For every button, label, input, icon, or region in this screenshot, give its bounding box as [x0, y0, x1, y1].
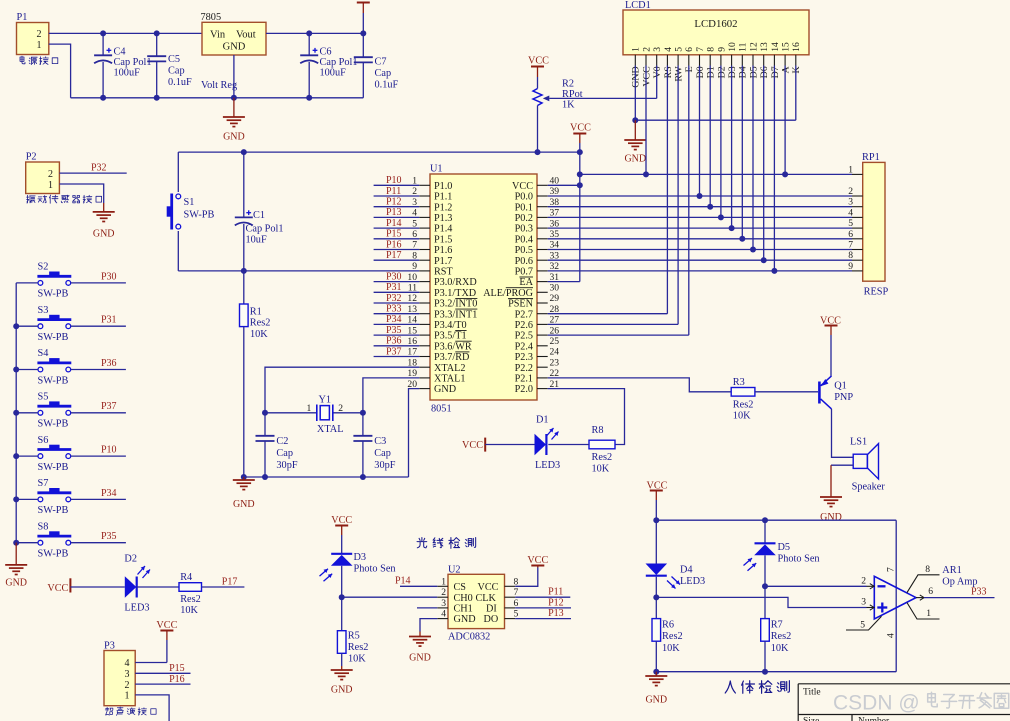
svg-text:Res2: Res2 — [250, 318, 271, 329]
wire S7 net P34 — [71, 498, 126, 500]
junction bus S5 — [13, 410, 19, 416]
wire U1 pin40 VCC — [548, 184, 580, 186]
svg-text:LED3: LED3 — [124, 602, 149, 613]
pin 7 LCD1 D0 — [699, 55, 701, 66]
svg-text:S5: S5 — [38, 392, 49, 403]
wire VCC to RP1 pin1 — [580, 173, 852, 175]
wire net P11 — [374, 195, 420, 197]
wire 7805 GND stem — [233, 55, 235, 98]
svg-text:DO: DO — [484, 614, 499, 625]
wire S2 net P30 — [71, 282, 126, 284]
wire LCD D0 down to P0.0 line — [699, 66, 701, 197]
pin 16 LCD1 K — [795, 55, 797, 66]
svg-text:D2: D2 — [124, 553, 137, 564]
svg-text:GND: GND — [5, 577, 27, 588]
junction bus S3 — [13, 323, 19, 329]
wire P1 pin1 down to ground rail — [49, 44, 71, 98]
svg-text:3: 3 — [861, 596, 866, 607]
wire LCD D7 down to P0.7 line — [773, 66, 775, 271]
adc U2 ADC0832 body — [448, 574, 505, 628]
svg-text:100uF: 100uF — [320, 67, 347, 78]
svg-text:PNP: PNP — [834, 392, 853, 403]
svg-text:D2: D2 — [716, 66, 727, 78]
svg-text:Res2: Res2 — [733, 399, 754, 410]
ground GND (speaker) — [820, 496, 842, 498]
svg-text:VCC: VCC — [331, 515, 352, 526]
svg-text:SW-PB: SW-PB — [38, 375, 69, 386]
pin 5 AR1 — [846, 616, 882, 630]
svg-text:24: 24 — [550, 347, 560, 358]
resistor R8 10K — [589, 440, 615, 449]
wire U2 CH1 stub — [417, 607, 437, 609]
mcu U1 8051 body — [430, 174, 537, 400]
svg-text:4: 4 — [125, 658, 130, 669]
junction D1 — [707, 204, 713, 210]
wire R2 wiper to LCD V0 — [549, 97, 656, 99]
svg-text:11: 11 — [738, 42, 749, 51]
svg-text:9: 9 — [412, 261, 417, 272]
photo arrows D5 — [744, 558, 753, 565]
junction D5 top — [762, 517, 768, 523]
svg-text:P0.6: P0.6 — [515, 256, 533, 267]
svg-text:P3.7/RD: P3.7/RD — [434, 352, 469, 363]
svg-text:ALE/PROG: ALE/PROG — [483, 288, 533, 299]
svg-text:23: 23 — [550, 357, 560, 368]
svg-text:P16: P16 — [386, 239, 402, 250]
wire P3 pin1 down — [135, 695, 169, 721]
svg-text:P11: P11 — [548, 586, 563, 597]
wire bus to S2 — [16, 282, 38, 284]
resistor R4 10K — [179, 583, 202, 592]
pin 13 LCD1 D6 — [763, 55, 765, 66]
wire U1 P2.5 to LCD E — [548, 334, 689, 336]
pin 25 U1 P2.4 — [537, 345, 548, 347]
pin 10 U1 P3.0/RXD — [419, 281, 430, 283]
wire P0.3 to RP1 — [548, 227, 852, 229]
svg-text:2: 2 — [338, 403, 343, 414]
svg-text:Cap: Cap — [374, 448, 391, 459]
pin 6 U1 P1.5 — [419, 238, 430, 240]
pin 39 U1 P0.0 — [537, 195, 548, 197]
wire LCD D4 down to P0.4 line — [741, 66, 743, 239]
svg-text:GND: GND — [434, 384, 456, 395]
svg-text:P13: P13 — [548, 608, 564, 619]
svg-text:P2: P2 — [26, 152, 37, 163]
svg-text:P17: P17 — [386, 250, 402, 261]
capacitor C6 100uF — [308, 33, 310, 55]
svg-text:Vout: Vout — [236, 30, 256, 41]
svg-text:Y1: Y1 — [319, 395, 332, 406]
svg-text:VCC: VCC — [641, 66, 652, 87]
svg-text:10K: 10K — [592, 464, 610, 475]
svg-text:P0.4: P0.4 — [515, 234, 533, 245]
svg-text:P36: P36 — [386, 336, 402, 347]
svg-text:30: 30 — [550, 283, 560, 294]
svg-text:P0.0: P0.0 — [515, 192, 533, 203]
svg-text:12: 12 — [748, 42, 759, 52]
svg-text:P2.2: P2.2 — [515, 363, 533, 374]
pin 7 RP1 — [852, 249, 863, 251]
pin 4 LCD1 RS — [666, 55, 668, 66]
wire D4 stem — [655, 520, 657, 563]
wire S8 net P35 — [71, 542, 126, 544]
pin 1 U1 P1.0 — [419, 184, 430, 186]
svg-text:4: 4 — [663, 47, 674, 52]
svg-text:P37: P37 — [101, 401, 117, 412]
svg-text:D5: D5 — [778, 542, 791, 553]
wire P3 pin3 net P15 — [135, 672, 190, 674]
svg-text:0.1uF: 0.1uF — [168, 77, 192, 88]
svg-text:10: 10 — [727, 42, 738, 52]
pin 5 U2 DO — [505, 618, 516, 620]
junction VCC/pin40 — [577, 182, 583, 188]
svg-text:XTAL1: XTAL1 — [434, 374, 465, 385]
svg-text:Res2: Res2 — [771, 631, 792, 642]
svg-text:CS: CS — [454, 582, 467, 593]
wire U1 P2.6 to LCD RW — [548, 323, 678, 325]
pin 16 U1 P3.6/WR — [419, 345, 430, 347]
pin 29 U1 PSEN — [537, 302, 548, 304]
svg-text:P13: P13 — [386, 207, 402, 218]
wire net P35 — [374, 334, 420, 336]
svg-text:P1.3: P1.3 — [434, 213, 452, 224]
svg-text:P1.4: P1.4 — [434, 224, 452, 235]
svg-text:XTAL: XTAL — [317, 424, 344, 435]
wire VCC rail above U1 — [178, 151, 580, 153]
wire net P15 — [374, 238, 420, 240]
svg-text:SW-PB: SW-PB — [38, 419, 69, 430]
capacitor C5 0.1uF — [156, 33, 158, 56]
wire S4 net P36 — [71, 369, 126, 371]
svg-text:10uF: 10uF — [246, 235, 267, 246]
svg-text:ADC0832: ADC0832 — [448, 631, 490, 642]
ground GND (U2) — [409, 636, 431, 638]
svg-text:8: 8 — [706, 47, 717, 52]
pin 8 RP1 — [852, 259, 863, 261]
junction C2 bottom — [262, 474, 268, 480]
svg-text:GND: GND — [409, 653, 431, 664]
junction C1 top — [241, 149, 247, 155]
svg-text:P15: P15 — [169, 663, 185, 674]
svg-text:Title: Title — [803, 687, 821, 697]
svg-text:2: 2 — [441, 587, 446, 598]
svg-text:P34: P34 — [101, 488, 117, 499]
svg-text:VCC: VCC — [47, 583, 68, 594]
svg-text:GND: GND — [233, 499, 255, 510]
junction bus S8 — [13, 540, 19, 546]
svg-text:Res2: Res2 — [662, 631, 683, 642]
junction C5 bottom — [154, 95, 160, 101]
svg-text:10K: 10K — [662, 643, 680, 654]
svg-text:R8: R8 — [592, 425, 604, 436]
svg-text:Cap: Cap — [375, 68, 392, 79]
svg-text:VCC: VCC — [528, 56, 549, 67]
svg-text:Cap Pol1: Cap Pol1 — [246, 224, 284, 235]
wire net P17 — [374, 259, 420, 261]
svg-text:DI: DI — [486, 604, 497, 615]
wire VCC to Q1 emitter — [830, 335, 832, 376]
wire D2 to R4 — [137, 586, 179, 588]
resistor pack RP1 RESP body — [863, 162, 885, 281]
photodiode D5 Photo Sen — [755, 542, 776, 544]
svg-text:SW-PB: SW-PB — [38, 549, 69, 560]
svg-text:S1: S1 — [184, 197, 195, 208]
svg-text:GND: GND — [223, 132, 245, 143]
pin 14 LCD1 D7 — [773, 55, 775, 66]
junction D6 — [761, 257, 767, 263]
svg-text:V0: V0 — [652, 66, 663, 78]
wire net P12 — [374, 206, 420, 208]
wire AR1 output net P33 — [924, 597, 995, 599]
label 人体检测 — [725, 681, 735, 693]
pin 15 LCD1 A — [784, 55, 786, 66]
svg-text:P33: P33 — [386, 304, 402, 315]
svg-text:S7: S7 — [38, 478, 49, 489]
svg-text:4: 4 — [441, 609, 446, 620]
svg-text:P3.0/RXD: P3.0/RXD — [434, 277, 477, 288]
wire ground rail — [71, 97, 364, 99]
svg-text:P34: P34 — [386, 314, 402, 325]
wire LCD GND/K tie — [635, 119, 796, 121]
svg-text:S2: S2 — [38, 262, 49, 273]
svg-text:RP1: RP1 — [862, 152, 880, 163]
svg-text:7: 7 — [695, 47, 706, 52]
wire speaker to ground — [831, 464, 853, 466]
svg-text:SW-PB: SW-PB — [38, 332, 69, 343]
wire XTAL1 from Y1 right — [363, 378, 419, 413]
svg-text:P37: P37 — [386, 346, 402, 357]
svg-text:1: 1 — [631, 47, 642, 52]
svg-text:P2.0: P2.0 — [515, 384, 533, 395]
pin 32 U1 P0.7 — [537, 270, 548, 272]
label 超声波接口 — [105, 707, 113, 715]
pin 2 U1 P1.1 — [419, 195, 430, 197]
wire GND up to U1 pin20 — [409, 389, 420, 477]
svg-text:P36: P36 — [101, 358, 117, 369]
pin 28 U1 P2.7 — [537, 313, 548, 315]
svg-text:E: E — [684, 66, 695, 72]
svg-text:C5: C5 — [168, 54, 180, 65]
label 光线检测 — [417, 538, 427, 548]
svg-text:SW-PB: SW-PB — [38, 505, 69, 516]
svg-text:GND: GND — [645, 695, 667, 706]
wire VCC vertical to U1 pin40 and EA — [579, 152, 581, 282]
svg-text:2: 2 — [125, 680, 130, 691]
svg-text:XTAL2: XTAL2 — [434, 363, 465, 374]
svg-text:P1.7: P1.7 — [434, 256, 452, 267]
pin 5 RP1 — [852, 227, 863, 229]
svg-text:CSDN @: CSDN @ — [833, 692, 920, 715]
pin 6 LCD1 E — [688, 55, 690, 66]
svg-text:P31: P31 — [101, 315, 117, 326]
pin 12 U1 P3.2/INT0 — [419, 302, 430, 304]
wire D3 to junction — [341, 566, 343, 597]
wire P0.0 to RP1 — [548, 195, 852, 197]
wire LCD pin16 K down — [795, 66, 797, 121]
led D2 light arrows — [138, 566, 146, 575]
svg-text:14: 14 — [770, 42, 781, 52]
svg-text:EA: EA — [519, 277, 533, 288]
svg-text:GND: GND — [331, 685, 353, 696]
pin 27 U1 P2.6 — [537, 323, 548, 325]
svg-text:16: 16 — [791, 42, 802, 52]
svg-text:1K: 1K — [562, 100, 575, 111]
svg-text:PSEN: PSEN — [508, 299, 534, 310]
resistor R5 10K — [341, 597, 343, 631]
svg-text:2: 2 — [641, 47, 652, 52]
junction D5/R7/pin2 — [762, 583, 768, 589]
svg-text:5: 5 — [860, 619, 865, 630]
wire P0.5 to RP1 — [548, 249, 852, 251]
svg-text:CH1: CH1 — [454, 604, 473, 615]
svg-text:P10: P10 — [101, 445, 117, 456]
capacitor C3 30pF — [362, 413, 364, 436]
svg-text:SW-PB: SW-PB — [184, 210, 215, 221]
wire net P34 — [374, 323, 420, 325]
svg-text:3: 3 — [125, 669, 130, 680]
svg-text:Photo Sen: Photo Sen — [354, 563, 396, 574]
label 电源接口 — [20, 56, 25, 64]
svg-text:R2: R2 — [562, 79, 574, 90]
op-amp AR1 body — [874, 576, 916, 619]
svg-text:P0.7: P0.7 — [515, 267, 533, 278]
svg-text:D4: D4 — [738, 66, 749, 78]
svg-text:10K: 10K — [771, 643, 789, 654]
svg-text:D3: D3 — [727, 66, 738, 78]
wire net P13 — [374, 216, 420, 218]
svg-text:Number: Number — [858, 717, 890, 721]
wire LCD pin6 E down to P2.5 — [688, 66, 690, 336]
junction LCD A/RP1 line — [782, 171, 788, 177]
pin 38 U1 P0.1 — [537, 206, 548, 208]
pin 1 AR1 — [907, 603, 940, 619]
svg-text:U2: U2 — [448, 564, 461, 575]
wire VCC to D2 — [70, 586, 124, 588]
pin 13 U1 P3.3/INT1 — [419, 313, 430, 315]
photodiode D3 Photo Sen — [331, 553, 352, 555]
wire LCD pin1 GND down — [634, 66, 636, 121]
wire net P10 — [374, 184, 420, 186]
switch S5 SW-PB — [38, 410, 43, 415]
pin 11 U1 P3.1/TXD — [419, 291, 430, 293]
svg-text:D1: D1 — [706, 66, 717, 78]
svg-text:P32: P32 — [386, 293, 402, 304]
svg-text:25: 25 — [550, 336, 560, 347]
svg-text:30pF: 30pF — [276, 460, 297, 471]
power VCC port (top of C7) — [357, 2, 370, 4]
svg-text:CLK: CLK — [476, 593, 497, 604]
junction R2 on VCC rail — [535, 149, 541, 155]
wire LCD pin3 V0 down — [656, 66, 658, 99]
wire RST line to U1 pin9 — [178, 270, 419, 272]
pin 15 U1 P3.5/T1 — [419, 334, 430, 336]
pin 6 AR1 output — [916, 597, 924, 599]
pin 12 LCD1 D5 — [752, 55, 754, 66]
led D4 LED3 — [646, 564, 668, 576]
wire VCC down to top rail — [655, 500, 657, 520]
wire bus to S5 — [16, 412, 38, 414]
connector P2 — [26, 162, 60, 194]
svg-text:P2.3: P2.3 — [515, 352, 533, 363]
svg-text:C3: C3 — [374, 436, 386, 447]
svg-text:K: K — [791, 65, 802, 73]
switch S3 SW-PB — [38, 324, 43, 329]
svg-text:Q1: Q1 — [834, 381, 847, 392]
pin 8 AR1 — [907, 575, 940, 593]
junction D4 — [739, 236, 745, 242]
wire U1 P2.1 to R3 — [548, 378, 732, 392]
led D4 light arrows — [672, 577, 681, 585]
wire net P16 — [374, 249, 420, 251]
pin 7 U1 P1.6 — [419, 249, 430, 251]
svg-text:2: 2 — [37, 29, 42, 40]
pin 8 LCD1 D1 — [709, 55, 711, 66]
pin 14 U1 P3.4/T0 — [419, 323, 430, 325]
wire bus to S4 — [16, 369, 38, 371]
svg-text:4: 4 — [885, 633, 896, 638]
svg-text:VCC: VCC — [478, 582, 499, 593]
pin 1 RP1 — [852, 173, 863, 175]
wire junction to opamp pin3 — [656, 597, 866, 607]
junction C6 bottom — [306, 95, 312, 101]
capacitor C2 30pF — [264, 413, 266, 436]
junction VCC/RP1 line — [577, 171, 583, 177]
wire VCC to D3 — [341, 535, 343, 554]
junction R1 bottom — [241, 474, 247, 480]
svg-text:30pF: 30pF — [374, 460, 395, 471]
svg-text:S8: S8 — [38, 521, 49, 532]
resistor R1 10K — [243, 271, 245, 304]
wire P3 pin2 net P16 — [135, 683, 190, 685]
svg-text:RESP: RESP — [864, 287, 889, 298]
svg-text:P10: P10 — [386, 175, 402, 186]
pin 2 U2 CH0 — [437, 596, 448, 598]
pin 37 U1 P0.2 — [537, 216, 548, 218]
junction D4/R6/pin3 — [653, 594, 659, 600]
svg-text:P11: P11 — [386, 186, 401, 197]
svg-text:29: 29 — [550, 293, 560, 304]
wire P0.6 to RP1 — [548, 259, 852, 261]
wire bus to S6 — [16, 455, 38, 457]
junction bus S6 — [13, 453, 19, 459]
junction D3/R5/CH0 — [339, 594, 345, 600]
wire P0.1 to RP1 — [548, 206, 852, 208]
svg-text:P1.2: P1.2 — [434, 202, 452, 213]
ground GND (crystal) — [243, 477, 245, 480]
svg-text:P3: P3 — [104, 640, 115, 651]
junction D4 top — [653, 517, 659, 523]
wire D5 to junction — [764, 555, 766, 586]
junction C4 top — [100, 30, 106, 36]
svg-text:C7: C7 — [375, 57, 387, 68]
svg-text:13: 13 — [759, 42, 770, 52]
wire S1 bottom to RST line — [177, 231, 179, 271]
svg-text:6: 6 — [684, 47, 695, 52]
speaker LS1 — [853, 454, 867, 468]
junction R7 bottom — [762, 669, 768, 675]
junction LCD pin1 — [632, 117, 638, 123]
ground GND (R5) — [331, 669, 353, 671]
switch S4 SW-PB — [38, 367, 43, 372]
svg-text:P3.2/INT0: P3.2/INT0 — [434, 299, 477, 310]
svg-text:D6: D6 — [759, 66, 770, 78]
svg-text:P3.4/T0: P3.4/T0 — [434, 320, 467, 331]
wire junction to U2 CH0 — [342, 596, 438, 598]
svg-text:P2.7: P2.7 — [515, 309, 533, 320]
svg-text:P2.4: P2.4 — [515, 341, 533, 352]
pin 5 LCD1 RW — [677, 55, 679, 66]
pin 3 U1 P1.2 — [419, 206, 430, 208]
